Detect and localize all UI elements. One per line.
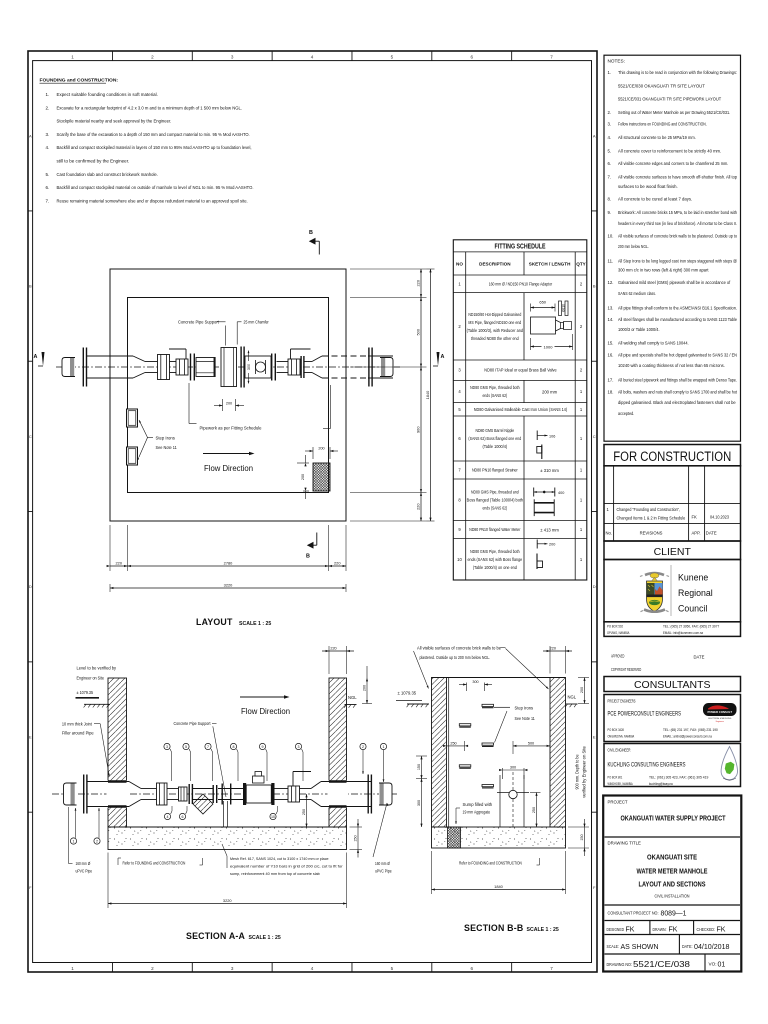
top grid band column dividers and numbers xyxy=(71,51,553,61)
section A-A uPVC end cap right xyxy=(379,783,392,805)
section B-B right wall hatched xyxy=(550,678,566,828)
section A-A 200 dim right xyxy=(362,666,372,704)
section B-B sump label xyxy=(455,802,493,824)
layout pipe segment xyxy=(170,361,177,363)
section B-B 250 dim drain depth xyxy=(530,793,541,828)
section B-B depth note rotated xyxy=(575,745,587,797)
svg-text:Engineers: Engineers xyxy=(716,721,724,723)
svg-text:ELECTRICAL & MECH ENG: ELECTRICAL & MECH ENG xyxy=(708,717,732,720)
layout overall 1840 dim xyxy=(425,269,435,521)
section A-A 160mm uPVC label right xyxy=(373,803,392,874)
section A-A marker left of layout xyxy=(34,352,45,366)
client header box xyxy=(604,541,741,560)
layout title xyxy=(196,617,271,627)
left grid band row ticks and letters xyxy=(28,133,33,890)
client logo divider line xyxy=(670,565,672,616)
title block outer border xyxy=(603,796,741,972)
client logo box xyxy=(604,560,741,622)
layout strainer body item 7 xyxy=(245,356,271,378)
layout uPVC pipe end left xyxy=(62,358,75,377)
section A-A pipe through left wall xyxy=(88,781,130,783)
section A-A floor slab with concrete texture xyxy=(108,827,347,850)
consultant project no row xyxy=(605,909,741,921)
section A-A bottom 3220 dim xyxy=(108,853,347,909)
section B-B 150 slab dim right xyxy=(568,819,589,856)
section A-A puddle flange left xyxy=(83,775,84,814)
section A-A balloons above pipe xyxy=(164,743,303,781)
section B-B level note left xyxy=(396,691,429,708)
section B-B step irons label and leader xyxy=(494,705,535,742)
section B-B 300 dim step irons top xyxy=(459,680,492,691)
section A-A pipe assembly xyxy=(64,772,393,828)
layout overall 3220 dim xyxy=(110,582,346,592)
layout puddle flange right xyxy=(368,348,369,387)
section A-A 150 slab dim right xyxy=(350,819,363,858)
project engineers box xyxy=(604,695,741,742)
section A-A ball valve item 3 right xyxy=(288,786,300,802)
layout 25 mm chamfer label xyxy=(237,320,269,345)
layout pipe wall right segment xyxy=(322,355,368,357)
layout pipe wall left segment xyxy=(87,355,133,357)
kunene regional council coat of arms xyxy=(640,573,669,612)
layout step iron upper xyxy=(127,409,138,427)
section A-A pipe segment xyxy=(167,788,179,790)
fitting schedule column headers xyxy=(456,262,586,267)
consultants header box xyxy=(604,677,741,692)
section A-A balloons at right end xyxy=(360,743,387,782)
right grid band row ticks and letters xyxy=(592,133,598,890)
fitting schedule row 8 sketch xyxy=(534,488,565,517)
layout strainer flange bars xyxy=(240,347,241,388)
section A-A wall 220 dim top right xyxy=(322,646,354,674)
layout uPVC pipe end right xyxy=(380,358,393,377)
section A-A NGL label right xyxy=(344,695,357,708)
layout manhole inner wall rectangle xyxy=(128,298,329,493)
section A-A puddle flange right xyxy=(368,775,369,814)
project box xyxy=(605,800,741,838)
section A-A pipe through right wall xyxy=(321,781,372,783)
section A-A flange bars xyxy=(213,785,214,803)
section A-A 250 dim pipe to slab xyxy=(302,794,308,827)
section A-A expander right xyxy=(311,782,321,789)
FOUNDING and CONSTRUCTION notes block xyxy=(40,78,254,204)
section B-B 220 wall dim top right xyxy=(543,646,572,674)
section A-A union item 5 xyxy=(179,787,188,801)
layout manhole outer wall rectangle xyxy=(110,269,346,521)
section A-A balloons below pipe xyxy=(164,806,277,820)
section A-A water meter item 9 xyxy=(243,783,246,805)
section A-A uPVC end cap left xyxy=(64,783,77,805)
section A-A ball valve lever right xyxy=(293,771,311,773)
layout step irons label and leaders xyxy=(137,420,177,460)
section A-A joint filler white gap left wall xyxy=(107,781,129,808)
civil engineer box xyxy=(604,744,741,787)
section A-A taper left xyxy=(129,782,141,789)
section B-B step irons staggered xyxy=(459,704,493,788)
kuchling water drop logo xyxy=(721,747,737,781)
section A-A ground line left with soil hatch xyxy=(84,703,110,705)
section B-B 500 dim right xyxy=(513,741,550,754)
layout concrete pipe support block xyxy=(221,348,237,387)
layout pipe centerline xyxy=(56,366,400,368)
approved and copyright labels xyxy=(611,654,705,673)
layout 200 support dim xyxy=(214,399,244,411)
layout sump hatched square xyxy=(313,463,330,491)
section B-B 300 dim drain xyxy=(499,765,527,779)
layout puddle flange left xyxy=(83,348,84,387)
section A-A refer to founding label xyxy=(118,858,203,866)
section A-A marker right of layout xyxy=(433,352,445,366)
scale and date row xyxy=(605,935,741,955)
layout flange pair xyxy=(300,356,301,378)
section B-B 200 dim right xyxy=(578,678,589,704)
section A-A pipe segment over support xyxy=(193,788,213,790)
layout water meter symbol item 9 xyxy=(256,362,266,372)
section A-A 160mm uPVC label left xyxy=(69,807,93,874)
fitting schedule table grid xyxy=(453,240,587,580)
layout pipe segment narrow right xyxy=(305,361,313,363)
drawing title box xyxy=(605,841,741,906)
section B-B floor slab xyxy=(432,827,566,848)
client name text xyxy=(678,573,713,614)
section A-A joint filler label xyxy=(62,721,110,776)
layout 300 dim inside strainer xyxy=(248,351,250,384)
revision header row text xyxy=(606,531,717,536)
layout pipe piece item 4 xyxy=(196,358,214,377)
layout bottom dimension chain 220 2780 220 xyxy=(107,525,346,571)
section A-A floor line between walls xyxy=(127,826,330,828)
section B-B sump cross hatched xyxy=(448,827,461,848)
drawing sheet outer frame xyxy=(28,51,597,972)
section B-B marker top xyxy=(309,230,320,255)
layout sump 200 width dim xyxy=(305,446,338,459)
section B-B top line xyxy=(432,677,566,679)
section A-A title xyxy=(186,931,281,941)
layout reducer taper left xyxy=(133,356,145,362)
designed drawn checked row xyxy=(605,921,741,935)
section A-A flow direction xyxy=(240,695,290,716)
section A-A joint filler thick lines at right wall xyxy=(329,780,347,782)
section A-A pipe segment xyxy=(300,788,312,790)
revision row 1 text xyxy=(607,507,730,521)
layout pipe segment xyxy=(277,361,289,363)
layout ball valve item 3 xyxy=(176,359,188,375)
section A-A level note left xyxy=(76,666,117,698)
section B-B refer to founding label xyxy=(459,858,540,866)
layout step iron lower xyxy=(127,447,138,465)
layout union flange pair item 5 xyxy=(190,354,191,381)
layout concrete pipe support label xyxy=(178,320,226,346)
notes text block xyxy=(608,59,738,416)
layout flow direction arrow and text xyxy=(203,452,255,473)
section B-B dims left 150 300 xyxy=(416,756,427,827)
section B-B 250 dim left xyxy=(443,741,468,751)
section A-A joint filler white gap right wall xyxy=(328,781,349,808)
drawing sheet inner frame xyxy=(33,61,592,963)
revision table xyxy=(604,466,741,541)
for construction box xyxy=(604,445,741,466)
section A-A concrete pipe support label xyxy=(174,721,227,797)
bottom grid band column dividers and numbers xyxy=(71,963,553,973)
layout flange adaptor item 1 xyxy=(158,355,170,380)
drawing no row xyxy=(607,954,726,972)
section A-A balloons at left end xyxy=(70,808,100,844)
section A-A flange adaptor item 1 xyxy=(157,783,168,805)
section B-B plaster line left wall xyxy=(448,678,450,828)
section A-A right wall hatched xyxy=(329,678,347,827)
section B-B sump drain pipe xyxy=(497,772,529,827)
layout ball valve lever left xyxy=(169,348,186,350)
layout ball valve 2 item 3 xyxy=(288,359,300,375)
layout sump 200 height dim xyxy=(297,455,309,499)
fitting schedule row 6 sketch xyxy=(537,431,556,460)
section B-B marker bottom xyxy=(306,533,317,560)
section A-A strainer item 7 xyxy=(218,788,243,790)
section B-B plaster note top xyxy=(414,646,549,690)
layout flange bar xyxy=(214,357,215,377)
section A-A flange pair xyxy=(189,784,190,804)
section A-A mesh note xyxy=(222,844,343,876)
layout pipework bracket and label xyxy=(189,383,331,431)
section A-A joint filler thick lines at left wall xyxy=(108,780,127,782)
client address strip xyxy=(604,622,741,637)
section B-B bottom 1840 dim xyxy=(432,851,566,894)
section A-A pipe segment xyxy=(275,788,289,790)
section B-B title xyxy=(464,923,559,933)
svg-text:POWER CONSULT: POWER CONSULT xyxy=(707,710,732,714)
section A-A strainer pedestal to slab xyxy=(223,801,225,827)
layout flange bars right of meter xyxy=(271,354,272,381)
fitting schedule row 10 sketch xyxy=(537,540,555,570)
section A-A left wall hatched xyxy=(108,678,127,827)
section B-B NGL right xyxy=(565,695,577,708)
section A-A pipe centerline xyxy=(52,793,398,795)
section B-B left wall hatched xyxy=(432,678,447,828)
notes box border xyxy=(604,55,741,441)
layout expander taper right xyxy=(312,356,322,362)
layout right dimension chain 220 500 900 220 xyxy=(350,269,427,521)
powerconsult logo xyxy=(703,703,737,723)
layout ball valve lever right xyxy=(291,348,311,350)
layout pipe assembly xyxy=(62,347,393,388)
section A-A support diamond hatched xyxy=(193,794,213,814)
fitting schedule row 2 sketch reducer xyxy=(531,300,573,351)
